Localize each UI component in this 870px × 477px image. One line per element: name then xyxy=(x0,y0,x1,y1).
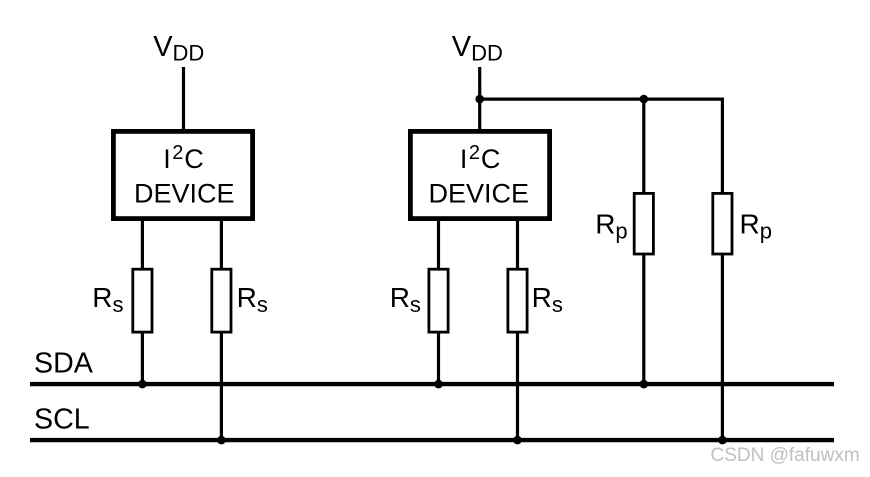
wire device 2 SCL pin to resistor Rs xyxy=(516,219,519,270)
svg-text:CSDN @fafuwxm: CSDN @fafuwxm xyxy=(711,445,860,466)
wire device 1 SDA pin to resistor Rs xyxy=(141,219,144,270)
SCL bus line xyxy=(30,438,834,442)
wire VDD to I2C device 1 xyxy=(182,67,185,131)
wire device 1 SCL pin to resistor Rs xyxy=(220,219,223,270)
wire Rs to SDA bus (device 2) xyxy=(437,332,440,387)
junction top rail at Rp1 xyxy=(640,95,649,104)
svg-text:SDA: SDA xyxy=(34,347,94,379)
svg-text:DEVICE: DEVICE xyxy=(429,179,530,209)
junction VDD node at device 2 xyxy=(475,95,484,104)
wire Rp1 to SDA bus xyxy=(642,253,645,386)
wire top rail down to Rp2 xyxy=(721,98,724,194)
SDA bus line xyxy=(30,382,834,386)
junction SDA at Rp1 xyxy=(640,380,649,389)
junction SCL at device 1 Rs xyxy=(217,436,226,445)
svg-text:DEVICE: DEVICE xyxy=(134,179,235,209)
junction SDA at device 1 Rs xyxy=(138,380,147,389)
pull-up resistor Rp1 (SDA) xyxy=(634,193,653,254)
svg-text:I2C: I2C xyxy=(460,142,501,174)
junction SCL at device 2 Rs xyxy=(513,436,522,445)
resistor Rs (device 2 SCL) xyxy=(508,269,527,332)
resistor Rs (device 2 SDA) xyxy=(429,269,448,332)
resistor Rs (device 1 SCL) xyxy=(212,269,231,332)
junction SCL at Rp2 xyxy=(718,436,727,445)
wire top rail down to Rp1 xyxy=(642,99,645,193)
svg-text:SCL: SCL xyxy=(34,404,90,436)
wire Rs to SCL bus (device 2) xyxy=(516,332,519,443)
wire Rs to SCL bus (device 1) xyxy=(220,332,223,443)
pull-up resistor Rp2 (SCL) xyxy=(713,193,732,254)
wire Rs to SDA bus (device 1) xyxy=(141,332,144,387)
I2C device 2 box xyxy=(410,131,549,218)
junction SDA at device 2 Rs xyxy=(434,380,443,389)
wire device 2 SDA pin to resistor Rs xyxy=(437,219,440,270)
I2C device 1 box xyxy=(113,131,252,218)
wire VDD node to pull-up resistors (top rail) xyxy=(480,97,724,100)
svg-text:I2C: I2C xyxy=(163,142,204,174)
wire VDD to I2C device 2 xyxy=(478,67,481,131)
resistor Rs (device 1 SDA) xyxy=(133,269,152,332)
wire Rp2 to SCL bus xyxy=(721,253,724,442)
